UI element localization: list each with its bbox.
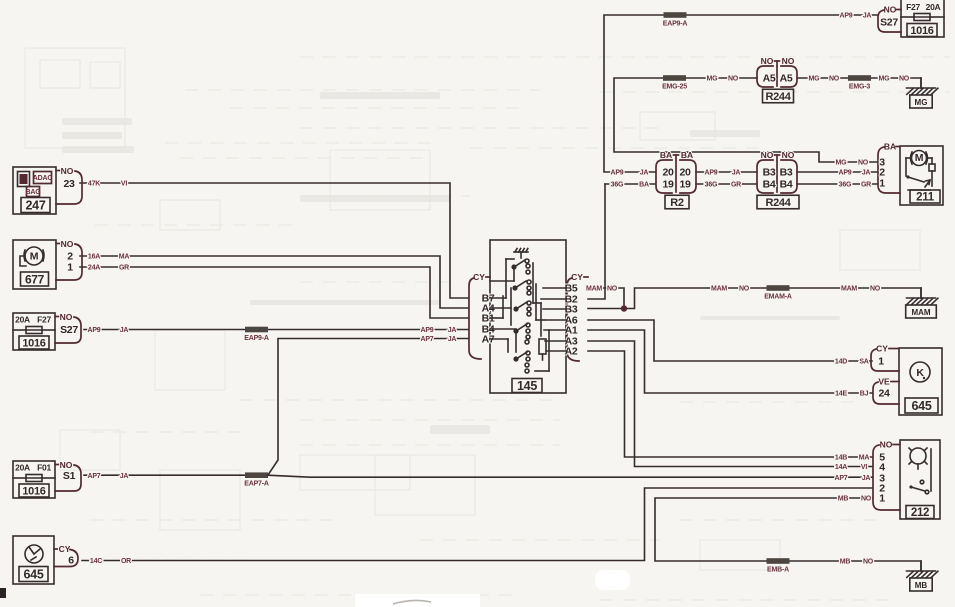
svg-text:23: 23: [63, 178, 75, 190]
svg-text:JA: JA: [120, 473, 129, 480]
svg-text:VE: VE: [878, 377, 890, 387]
svg-text:6: 6: [68, 555, 74, 567]
svg-text:MAM: MAM: [711, 286, 727, 293]
svg-text:B3: B3: [763, 166, 776, 178]
svg-text:AP7: AP7: [420, 336, 433, 343]
svg-text:19: 19: [679, 178, 691, 190]
svg-text:EMG-3: EMG-3: [849, 84, 870, 91]
svg-text:MG: MG: [915, 98, 928, 107]
svg-text:BA: BA: [681, 150, 693, 160]
svg-text:M: M: [30, 251, 39, 263]
svg-text:F27: F27: [906, 2, 920, 12]
svg-text:R244: R244: [765, 197, 791, 209]
svg-text:A5: A5: [780, 72, 793, 84]
svg-text:645: 645: [24, 568, 44, 582]
svg-text:211: 211: [916, 192, 935, 204]
svg-text:JA: JA: [862, 170, 871, 177]
svg-text:EAP9-A: EAP9-A: [244, 335, 269, 342]
svg-text:JA: JA: [448, 327, 457, 334]
svg-text:A5: A5: [763, 72, 776, 84]
svg-text:NO: NO: [782, 56, 795, 66]
svg-text:AP9: AP9: [420, 327, 433, 334]
svg-text:24A: 24A: [88, 265, 100, 272]
svg-text:MAM: MAM: [586, 286, 602, 293]
svg-text:MB: MB: [838, 496, 849, 503]
svg-text:NO: NO: [761, 150, 774, 160]
svg-text:NO: NO: [61, 239, 74, 249]
svg-text:R2: R2: [670, 197, 684, 209]
svg-text:14B: 14B: [835, 455, 847, 462]
svg-text:JA: JA: [640, 170, 649, 177]
svg-text:19: 19: [662, 178, 674, 190]
svg-text:NO: NO: [858, 160, 869, 167]
svg-text:47K: 47K: [88, 181, 100, 188]
svg-text:MG: MG: [836, 160, 848, 167]
svg-text:24: 24: [878, 388, 890, 400]
svg-text:S27: S27: [880, 17, 898, 29]
svg-text:JA: JA: [448, 336, 457, 343]
svg-text:EMB-A: EMB-A: [767, 567, 789, 574]
svg-text:MG: MG: [879, 76, 891, 83]
svg-text:20A: 20A: [15, 463, 30, 473]
svg-text:BA: BA: [639, 182, 649, 189]
svg-text:677: 677: [25, 272, 45, 286]
svg-text:B4: B4: [780, 178, 793, 190]
svg-text:NO: NO: [829, 76, 840, 83]
svg-text:16A: 16A: [88, 254, 100, 261]
svg-text:212: 212: [911, 507, 929, 519]
svg-text:NO: NO: [863, 559, 874, 566]
svg-text:1: 1: [879, 492, 885, 504]
svg-text:AP9: AP9: [87, 327, 100, 334]
svg-text:1: 1: [879, 177, 885, 189]
svg-text:14A: 14A: [835, 464, 847, 471]
svg-text:1016: 1016: [22, 337, 45, 349]
svg-text:MG: MG: [809, 76, 821, 83]
svg-text:NO: NO: [761, 56, 774, 66]
svg-text:36G: 36G: [705, 182, 718, 189]
svg-text:247: 247: [26, 199, 46, 213]
svg-text:MB: MB: [915, 581, 928, 590]
svg-text:BA: BA: [660, 150, 672, 160]
svg-text:CY: CY: [59, 544, 71, 554]
svg-text:NO: NO: [61, 166, 74, 176]
svg-text:NO: NO: [861, 496, 872, 503]
svg-text:JA: JA: [863, 13, 872, 20]
svg-text:NO: NO: [607, 286, 618, 293]
svg-text:EAP9-A: EAP9-A: [663, 21, 688, 28]
svg-text:EAP7-A: EAP7-A: [244, 481, 269, 488]
svg-text:36G: 36G: [611, 182, 624, 189]
svg-text:AP9: AP9: [839, 13, 852, 20]
svg-text:1: 1: [67, 262, 73, 274]
svg-text:MB: MB: [840, 559, 851, 566]
svg-text:ADAC: ADAC: [33, 175, 53, 182]
svg-text:R244: R244: [765, 91, 791, 103]
svg-text:1016: 1016: [910, 25, 933, 37]
svg-text:CY: CY: [876, 344, 888, 354]
svg-text:EMAM-A: EMAM-A: [764, 294, 792, 301]
svg-text:AP7: AP7: [87, 473, 100, 480]
svg-text:JA: JA: [862, 475, 871, 482]
svg-text:36G: 36G: [839, 182, 852, 189]
svg-text:145: 145: [517, 379, 537, 393]
svg-text:AP9: AP9: [838, 170, 851, 177]
svg-text:NO: NO: [60, 312, 73, 322]
svg-text:MAM: MAM: [841, 286, 857, 293]
svg-text:MAM: MAM: [911, 308, 930, 317]
svg-text:B4: B4: [763, 178, 776, 190]
svg-text:S27: S27: [60, 324, 78, 336]
svg-text:NO: NO: [899, 76, 910, 83]
svg-text:BA: BA: [884, 142, 896, 152]
svg-text:JA: JA: [732, 170, 741, 177]
svg-text:14D: 14D: [835, 359, 847, 366]
svg-text:AP9: AP9: [610, 170, 623, 177]
svg-text:MA: MA: [859, 455, 870, 462]
svg-text:B3: B3: [780, 166, 793, 178]
svg-text:NO: NO: [739, 286, 750, 293]
svg-text:VI: VI: [121, 181, 127, 188]
svg-text:20: 20: [679, 166, 691, 178]
svg-text:14E: 14E: [835, 391, 847, 398]
svg-text:AP9: AP9: [704, 170, 717, 177]
svg-text:SA: SA: [859, 359, 868, 366]
svg-text:F27: F27: [37, 315, 51, 325]
svg-text:NO: NO: [60, 460, 73, 470]
svg-text:1016: 1016: [22, 485, 45, 497]
svg-text:NO: NO: [870, 286, 881, 293]
svg-text:CY: CY: [473, 272, 485, 282]
svg-text:F01: F01: [37, 463, 51, 473]
svg-text:S1: S1: [63, 470, 76, 482]
svg-text:MA: MA: [119, 254, 130, 261]
svg-text:NO: NO: [728, 76, 739, 83]
svg-text:1: 1: [878, 356, 884, 368]
svg-text:GR: GR: [861, 182, 871, 189]
svg-text:NO: NO: [884, 5, 897, 15]
svg-text:NO: NO: [880, 440, 893, 450]
svg-text:NO: NO: [782, 150, 795, 160]
svg-text:GR: GR: [731, 182, 741, 189]
svg-text:14C: 14C: [90, 558, 102, 565]
svg-text:BJ: BJ: [860, 391, 869, 398]
svg-text:MG: MG: [707, 76, 719, 83]
svg-text:M: M: [915, 152, 924, 164]
svg-text:20A: 20A: [926, 2, 941, 12]
svg-text:BAG: BAG: [26, 189, 42, 196]
svg-text:OR: OR: [121, 558, 131, 565]
svg-text:645: 645: [912, 399, 932, 413]
svg-text:20: 20: [662, 166, 674, 178]
svg-text:CY: CY: [571, 272, 583, 282]
svg-text:20A: 20A: [15, 315, 30, 325]
svg-text:AP7: AP7: [834, 475, 847, 482]
svg-text:VI: VI: [861, 464, 867, 471]
svg-text:EMG-25: EMG-25: [662, 84, 687, 91]
svg-text:JA: JA: [120, 327, 129, 334]
svg-text:GR: GR: [119, 265, 129, 272]
